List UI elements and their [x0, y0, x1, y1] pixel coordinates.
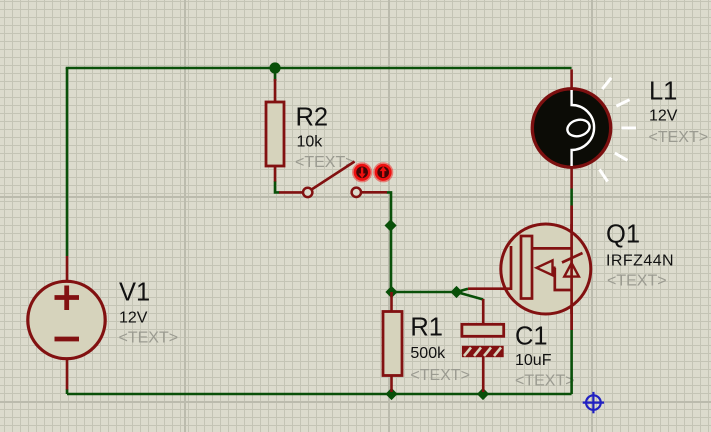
wire: lamp to Q1 drain	[570, 189, 573, 206]
battery V1	[28, 281, 105, 358]
capacitor C1 top plate	[462, 324, 504, 336]
label V1	[119, 279, 179, 347]
Q1 channel bar	[521, 236, 532, 299]
label Q1	[606, 221, 674, 290]
wire: switch right pin down to gate net	[387, 192, 392, 292]
svg-text:<TEXT>: <TEXT>	[607, 273, 667, 290]
pin: Q1 gate	[468, 287, 501, 290]
switch lever	[311, 162, 355, 191]
Q1 source step	[555, 268, 572, 290]
svg-text:V1: V1	[119, 279, 150, 307]
svg-text:<TEXT>: <TEXT>	[410, 367, 470, 384]
wire: bottom rail	[67, 393, 572, 396]
wire: horizontal gate net	[391, 291, 457, 294]
Q1 source arrow line	[552, 266, 556, 269]
Q1 arrow head	[537, 260, 553, 275]
svg-text:R2: R2	[296, 104, 329, 132]
pin: R1 top	[390, 292, 393, 313]
label L1	[649, 78, 709, 147]
pin: C1 bottom lead	[482, 356, 485, 392]
svg-text:C1: C1	[515, 323, 548, 351]
resistor R2	[266, 102, 284, 166]
svg-text:L1: L1	[649, 78, 677, 106]
pin: lamp bottom	[570, 167, 573, 189]
resistor R1	[383, 312, 402, 376]
Q1 drain connect	[532, 247, 572, 250]
pin: switch left	[279, 191, 303, 194]
wire: junction to C1 top lead	[457, 292, 484, 300]
pin: lamp top	[570, 69, 573, 90]
switch toggle button up	[374, 163, 393, 182]
svg-text:Q1: Q1	[606, 221, 640, 249]
node: junction R1 bottom on rail	[385, 388, 397, 400]
Q1 through line inside	[570, 224, 573, 314]
svg-text:IRFZ44N: IRFZ44N	[606, 253, 674, 270]
lamp rays	[600, 78, 637, 182]
label C1	[515, 323, 575, 390]
wire: left vertical from top rail to V1	[66, 68, 69, 256]
pin: C1 top lead	[482, 299, 485, 326]
Q1 gate plate	[510, 246, 513, 290]
Q1 gate pin inside	[501, 287, 512, 290]
wire: junction to R2 top pin	[274, 68, 277, 81]
svg-text:<TEXT>: <TEXT>	[119, 330, 179, 347]
node: junction R1 top	[385, 286, 397, 298]
pin: V1 negative	[66, 358, 69, 390]
wire: R2 bottom to switch left pin	[275, 181, 280, 192]
pin: switch right	[361, 191, 387, 194]
wire: V1 bottom to bottom rail	[66, 389, 69, 394]
svg-text:10uF: 10uF	[515, 352, 552, 369]
node: junction top rail / R2	[269, 62, 280, 73]
svg-text:500k: 500k	[410, 345, 446, 362]
pin: R2 bottom	[274, 165, 277, 182]
pin: V1 positive	[66, 256, 69, 282]
origin marker	[583, 392, 604, 413]
wire: junction to Q1 gate pin	[457, 289, 469, 292]
capacitor C1 bottom plate (hatched)	[462, 346, 504, 357]
switch right terminal	[352, 188, 361, 197]
label R2	[295, 104, 355, 172]
label R1	[410, 314, 470, 385]
wire: Q1 source to bottom rail	[570, 330, 573, 394]
pin: Q1 drain-source through line	[570, 206, 573, 331]
Q1 body diode triangle	[564, 263, 579, 277]
lamp L1	[532, 89, 610, 167]
node: junction C1 bottom on rail	[477, 388, 489, 400]
svg-text:12V: 12V	[649, 108, 678, 125]
svg-text:<TEXT>: <TEXT>	[649, 129, 709, 146]
switch left terminal	[303, 188, 312, 197]
Q1 body diode bar	[562, 253, 583, 263]
svg-text:10k: 10k	[297, 134, 324, 151]
node: junction gate/C1	[450, 286, 462, 298]
pin: R2 top	[274, 79, 277, 103]
mosfet Q1	[501, 224, 591, 314]
svg-text:<TEXT>: <TEXT>	[515, 373, 575, 390]
node: junction on vertical wire	[385, 219, 397, 231]
wire: top horizontal rail	[66, 67, 572, 70]
svg-text:12V: 12V	[119, 310, 148, 327]
pin: R1 bottom	[390, 375, 393, 393]
switch toggle button down	[353, 163, 372, 182]
svg-text:R1: R1	[410, 314, 443, 342]
lamp filament	[572, 90, 595, 166]
